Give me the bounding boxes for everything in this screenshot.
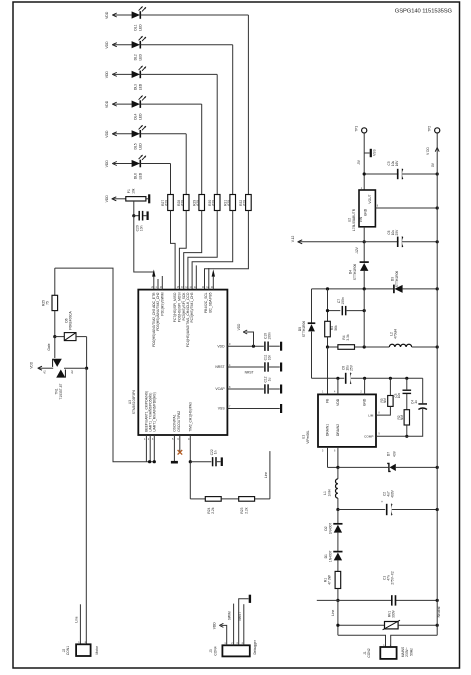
svg-text:1u: 1u	[268, 378, 272, 382]
svg-text:400V: 400V	[391, 489, 395, 497]
svg-text:43V: 43V	[392, 450, 396, 457]
svg-text:10n: 10n	[140, 225, 144, 231]
svg-text:25V: 25V	[395, 229, 399, 236]
svg-text:DRAIN2: DRAIN2	[336, 424, 340, 436]
svg-text:STTH1R06: STTH1R06	[353, 264, 357, 281]
svg-text:10n: 10n	[397, 393, 401, 399]
svg-text:LED: LED	[138, 143, 142, 150]
svg-text:VDD: VDD	[336, 398, 340, 406]
svg-text:+: +	[381, 500, 383, 504]
svg-text:Line: Line	[75, 616, 79, 622]
svg-text:50Hz: 50Hz	[409, 648, 413, 656]
svg-text:VDD: VDD	[30, 361, 34, 368]
svg-text:10n: 10n	[268, 355, 272, 361]
svg-text:NM: NM	[383, 398, 387, 403]
svg-text:10k: 10k	[132, 188, 136, 194]
svg-text:75: 75	[46, 301, 50, 305]
svg-text:TP1: TP1	[354, 126, 358, 132]
svg-text:NRST: NRST	[238, 612, 242, 621]
svg-text:1n: 1n	[214, 450, 218, 454]
svg-text:620: 620	[227, 200, 231, 206]
svg-text:U3: U3	[128, 400, 132, 404]
svg-text:VIN: VIN	[359, 216, 363, 222]
svg-text:100n: 100n	[341, 297, 345, 305]
svg-text:COMP: COMP	[364, 434, 373, 438]
svg-text:Neutral: Neutral	[437, 606, 441, 617]
svg-text:VSS: VSS	[373, 149, 377, 156]
svg-text:VDD: VDD	[105, 130, 109, 138]
svg-text:PC3(HS)/TIM1_CH3: PC3(HS)/TIM1_CH3	[190, 292, 194, 322]
svg-text:275V~X2: 275V~X2	[391, 571, 395, 584]
svg-text:470uH: 470uH	[394, 329, 398, 339]
svg-text:VIPer06L: VIPer06L	[306, 430, 310, 444]
svg-text:CON2: CON2	[367, 648, 371, 657]
svg-text:CON4: CON4	[213, 646, 217, 655]
svg-text:VCAP: VCAP	[215, 387, 225, 391]
svg-text:V DD: V DD	[426, 146, 430, 154]
svg-text:T1035T-8T: T1035T-8T	[59, 383, 63, 399]
svg-text:VDD: VDD	[105, 41, 109, 49]
svg-text:47 3W: 47 3W	[328, 574, 332, 584]
svg-text:620: 620	[196, 200, 200, 206]
svg-text:D7: D7	[387, 452, 391, 456]
svg-text:DL1: DL1	[134, 24, 138, 30]
svg-text:A1: A1	[42, 370, 46, 374]
svg-text:L78L05ABUTR: L78L05ABUTR	[352, 208, 356, 231]
svg-text:LED: LED	[138, 113, 142, 120]
svg-text:GND: GND	[363, 398, 367, 406]
svg-text:CON1: CON1	[66, 646, 70, 655]
svg-text:VDD: VDD	[105, 71, 109, 79]
svg-text:VDD: VDD	[213, 622, 217, 630]
svg-text:LED: LED	[138, 53, 142, 60]
svg-text:NRST: NRST	[215, 365, 224, 369]
svg-text:VDD: VDD	[217, 344, 225, 348]
svg-text:STM8S103F3P6: STM8S103F3P6	[132, 390, 136, 415]
svg-text:2.2k: 2.2k	[211, 507, 215, 514]
svg-text:3.3k: 3.3k	[346, 334, 350, 341]
svg-text:620: 620	[243, 200, 247, 206]
svg-text:DL3: DL3	[134, 84, 138, 90]
svg-text:P6KE400CA: P6KE400CA	[69, 310, 73, 329]
svg-text:DL6: DL6	[134, 173, 138, 179]
svg-text:56k: 56k	[334, 325, 338, 331]
svg-text:PD1(HS)/SWIM: PD1(HS)/SWIM	[160, 292, 164, 315]
svg-text:Gate: Gate	[47, 343, 51, 350]
svg-text:NRST: NRST	[245, 371, 254, 375]
svg-text:DL5: DL5	[134, 143, 138, 149]
svg-text:P1: P1	[127, 189, 131, 193]
svg-text:VDD: VDD	[105, 195, 109, 203]
svg-text:Line: Line	[331, 610, 335, 616]
svg-text:OSCIN/PA1: OSCIN/PA1	[173, 414, 177, 432]
svg-text:SWIM: SWIM	[228, 611, 232, 620]
svg-text:LED: LED	[138, 172, 142, 179]
svg-text:LED: LED	[138, 83, 142, 90]
svg-text:R24: R24	[207, 507, 211, 513]
svg-text:620: 620	[211, 200, 215, 206]
svg-text:-5V: -5V	[357, 159, 361, 165]
svg-text:Motor: Motor	[95, 645, 99, 654]
svg-text:25V: 25V	[349, 364, 353, 371]
svg-text:STTH1R06: STTH1R06	[302, 321, 306, 338]
svg-text:OSCOUT/PA2: OSCOUT/PA2	[177, 411, 181, 432]
svg-text:100n: 100n	[268, 332, 272, 340]
svg-text:R23: R23	[240, 507, 244, 513]
svg-text:GND: GND	[364, 208, 368, 216]
svg-text:LIM: LIM	[368, 413, 374, 417]
svg-text:-12V: -12V	[355, 246, 359, 254]
svg-text:VSS: VSS	[218, 407, 226, 411]
svg-text:PB4/I2C_SCL: PB4/I2C_SCL	[204, 292, 208, 313]
svg-text:VDD: VDD	[105, 11, 109, 19]
svg-text:I2C_SDA PB5: I2C_SDA PB5	[209, 292, 213, 313]
svg-text:VDD: VDD	[105, 100, 109, 108]
svg-text:Debugger: Debugger	[253, 639, 257, 654]
svg-text:STTH1R06: STTH1R06	[395, 271, 399, 288]
svg-text:390V: 390V	[392, 609, 396, 618]
svg-text:VDD: VDD	[237, 323, 241, 330]
svg-text:1mH: 1mH	[327, 489, 331, 497]
svg-text:Line: Line	[264, 472, 268, 478]
svg-text:1N4007: 1N4007	[328, 550, 332, 562]
svg-text:620: 620	[165, 200, 169, 206]
svg-text:UART1_RX/AIN6/PD6(HS): UART1_RX/AIN6/PD6(HS)	[152, 392, 156, 432]
svg-text:DL2: DL2	[134, 54, 138, 60]
svg-text:16V: 16V	[395, 160, 399, 167]
svg-text:DRAIN1: DRAIN1	[326, 424, 330, 436]
svg-text:V-12: V-12	[291, 235, 295, 242]
svg-text:1u: 1u	[414, 400, 418, 404]
svg-text:TIM2_CH1(HS)/PA3: TIM2_CH1(HS)/PA3	[188, 402, 192, 432]
svg-text:2.2k: 2.2k	[245, 507, 249, 514]
svg-text:LED: LED	[138, 24, 142, 31]
svg-text:1N4007: 1N4007	[328, 523, 332, 535]
svg-text:DL4: DL4	[134, 114, 138, 120]
svg-text:GSPG140 1151535SG: GSPG140 1151535SG	[395, 8, 453, 14]
svg-text:620: 620	[180, 200, 184, 206]
svg-text:NM: NM	[400, 415, 404, 420]
svg-text:A2: A2	[70, 370, 74, 374]
svg-text:VOUT: VOUT	[368, 194, 372, 203]
svg-text:TP2: TP2	[427, 126, 431, 132]
svg-text:VDD: VDD	[105, 160, 109, 168]
